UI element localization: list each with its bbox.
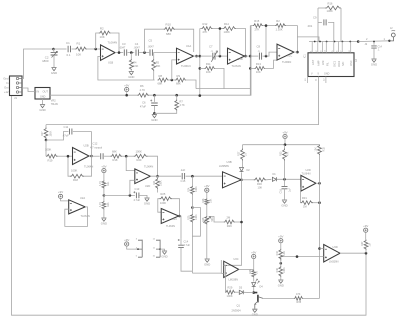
svg-text:OSC: OSC: [349, 60, 353, 66]
node fb1: [94, 48, 97, 51]
wire conn-reg: [22, 88, 35, 92]
wire Lnode: [192, 208, 200, 237]
svg-text:R17: R17: [41, 131, 44, 136]
resistor R30: [242, 179, 254, 181]
svg-text:C4: C4: [135, 42, 139, 46]
node div: [280, 262, 283, 265]
svg-text:GND: GND: [151, 118, 157, 122]
svg-text:R13: R13: [256, 62, 261, 66]
svg-text:R6: R6: [140, 84, 144, 88]
svg-text:47K: 47K: [287, 151, 290, 156]
svg-text:C16: C16: [280, 188, 283, 193]
op-amp U3B: [223, 172, 242, 188]
wire c12-r: [104, 155, 110, 157]
wire vert3: [249, 26, 251, 96]
svg-text:+9V: +9V: [204, 184, 209, 188]
wire u3c-out: [239, 268, 254, 270]
capacitor C14: [178, 239, 180, 241]
svg-text:GND: GND: [161, 254, 167, 258]
capacitor C3: [124, 49, 126, 55]
capacitor C8: [259, 53, 261, 60]
ground reg: [42, 99, 44, 104]
wire collector: [263, 297, 294, 299]
svg-text:R36: R36: [276, 267, 279, 272]
svg-text:R35: R35: [297, 301, 302, 304]
svg-text:10K: 10K: [100, 35, 105, 39]
resistor R26b: [252, 270, 256, 278]
node out1: [118, 51, 121, 54]
svg-text:10K: 10K: [210, 198, 213, 203]
svg-text:C7: C7: [209, 45, 213, 49]
wire r-node: [122, 155, 134, 157]
node vcc-v2: [199, 94, 202, 97]
resistor R32: [319, 144, 321, 146]
svg-text:GND: GND: [252, 313, 258, 317]
+9V buf: [59, 194, 63, 198]
node env-in: [125, 155, 128, 158]
resistor R17: [45, 125, 47, 128]
node v2b: [199, 67, 202, 70]
resistor R27: [242, 145, 244, 149]
op-amp U1C2: [228, 48, 245, 64]
svg-text:U3C: U3C: [234, 258, 239, 261]
resistor R24v: [157, 176, 159, 178]
node env-out: [156, 175, 159, 178]
svg-text:R20: R20: [137, 158, 142, 162]
wire c8a: [250, 55, 258, 57]
wire c7up: [219, 29, 221, 57]
wire rail-end: [186, 80, 196, 89]
svg-text:J1: J1: [14, 96, 17, 100]
resistor R9: [175, 78, 186, 82]
op-amp U3C: [224, 261, 239, 277]
svg-text:TL064N: TL064N: [108, 41, 118, 45]
svg-text:R24: R24: [153, 180, 156, 185]
svg-text:R2: R2: [276, 19, 280, 23]
wire out3: [245, 55, 251, 57]
svg-text:U1C: U1C: [287, 54, 292, 58]
svg-text:1M: 1M: [368, 243, 371, 246]
resistor R36: [279, 266, 283, 277]
wire c14-d: [181, 248, 192, 272]
capacitor C6: [153, 95, 155, 102]
resistor R29 2M: [211, 217, 224, 223]
svg-text:10K: 10K: [258, 185, 263, 189]
capacitor C12: [92, 155, 100, 157]
pot R28: [205, 216, 209, 225]
wire +in env: [130, 180, 135, 195]
svg-text:100K: 100K: [160, 201, 166, 205]
svg-text:100K: 100K: [227, 294, 233, 298]
ground Q1: [252, 309, 257, 312]
node d1: [283, 178, 286, 181]
node r7t: [175, 94, 178, 97]
svg-text:U2C: U2C: [172, 218, 177, 221]
wire c8b: [263, 52, 277, 56]
svg-text:R34: R34: [276, 250, 279, 255]
svg-text:+9V: +9V: [282, 130, 287, 134]
svg-text:R18: R18: [73, 178, 78, 182]
svg-text:R28: R28: [202, 217, 205, 222]
svg-text:R29: R29: [228, 286, 233, 290]
svg-text:130K: 130K: [195, 186, 198, 192]
svg-text:C3: C3: [122, 42, 126, 46]
wire u2dr-out: [316, 182, 320, 184]
wire u2cout: [179, 216, 181, 238]
wire ubot: [192, 260, 221, 273]
svg-text:.1uF: .1uF: [180, 168, 186, 172]
node v2a: [199, 55, 202, 58]
svg-text:Out: Out: [4, 86, 9, 90]
resistor R14: [223, 27, 237, 31]
ground R36: [278, 280, 283, 283]
svg-text:GND: GND: [51, 71, 57, 75]
svg-text:+9V: +9V: [101, 164, 106, 168]
svg-text:1800: 1800: [42, 59, 49, 63]
svg-text:10K: 10K: [315, 147, 318, 152]
capacitor C2: [51, 52, 58, 55]
resistor R20: [134, 154, 148, 158]
svg-text:R11: R11: [206, 62, 211, 66]
node out4: [296, 51, 299, 54]
+9V led: [252, 254, 256, 258]
+9V bias: [102, 169, 106, 173]
svg-text:100K: 100K: [160, 180, 163, 186]
capacitor C1: [68, 46, 70, 52]
svg-text:C12: C12: [93, 142, 98, 146]
svg-text:R25: R25: [188, 215, 191, 220]
svg-text:O/C2: O/C2: [337, 60, 341, 67]
wire 130k: [191, 195, 193, 214]
svg-text:R12: R12: [203, 22, 208, 26]
node c6: [153, 94, 156, 97]
svg-text:1.30K: 1.30K: [276, 27, 283, 31]
svg-text:+9V: +9V: [251, 250, 256, 254]
svg-text:4.7K: 4.7K: [180, 104, 185, 107]
svg-text:R27: R27: [238, 151, 241, 156]
resistor R37: [364, 240, 368, 251]
svg-text:TL064N: TL064N: [302, 172, 311, 175]
svg-text:GND: GND: [204, 262, 210, 266]
wire env-out: [150, 175, 181, 177]
svg-text:4.7K: 4.7K: [140, 88, 146, 92]
wire 9vrail: [243, 144, 320, 146]
svg-text:ANT: ANT: [311, 59, 315, 65]
svg-text:LIM: LIM: [321, 61, 325, 65]
wire vert2: [199, 29, 201, 96]
op-amp U2C: [161, 209, 179, 224]
node out3: [244, 55, 247, 58]
svg-text:R25: R25: [161, 192, 166, 196]
node u2dr: [318, 182, 321, 185]
node c45: [143, 51, 146, 54]
wire u3bout-v: [224, 173, 242, 266]
svg-text:.001: .001: [307, 24, 313, 28]
svg-text:R15: R15: [254, 19, 259, 23]
svg-text:C15: C15: [181, 179, 186, 183]
wire div: [280, 260, 282, 266]
svg-text:130K: 130K: [224, 30, 230, 34]
wire r12r14: [213, 28, 223, 30]
node 9v: [125, 94, 128, 97]
capacitor C13: [136, 193, 139, 199]
svg-text:GND: GND: [144, 201, 150, 205]
capacitor C9: [318, 21, 322, 23]
svg-text:68K: 68K: [176, 82, 181, 86]
svg-text:LM339N: LM339N: [329, 261, 339, 264]
svg-text:R26: R26: [202, 198, 205, 203]
svg-text:R32: R32: [322, 146, 325, 151]
svg-text:4.7K: 4.7K: [99, 181, 102, 186]
svg-text:100K: 100K: [136, 150, 142, 154]
svg-text:1uF: 1uF: [289, 187, 292, 192]
svg-text:R16: R16: [328, 2, 333, 6]
wire r25l2: [158, 199, 161, 213]
wire c4c5: [139, 52, 149, 54]
ground pins: [160, 249, 164, 250]
svg-text:U2D: U2D: [145, 184, 150, 188]
svg-text:TL064N: TL064N: [144, 165, 153, 169]
node v3a: [249, 55, 252, 58]
svg-text:U1A: U1A: [186, 44, 191, 48]
node busout: [357, 40, 360, 43]
resistor R10: [145, 29, 164, 52]
svg-text:5.6K: 5.6K: [133, 65, 138, 68]
power pins A: [138, 240, 142, 258]
svg-text:130K: 130K: [195, 214, 198, 220]
wire loop2: [196, 88, 250, 90]
capacitor C11: [46, 132, 69, 141]
op-amp U2Dr: [301, 175, 316, 191]
node v3b: [249, 67, 252, 70]
svg-text:O/C1: O/C1: [332, 60, 336, 67]
svg-text:LM339N: LM339N: [229, 279, 239, 282]
svg-text:TL064N: TL064N: [232, 64, 241, 68]
svg-text:AMP: AMP: [316, 60, 320, 66]
svg-text:4.7K: 4.7K: [99, 202, 102, 207]
svg-text:R18: R18: [113, 158, 118, 162]
svg-text:150K: 150K: [50, 130, 53, 136]
node lfo-in: [67, 155, 70, 158]
resistor R1: [75, 47, 87, 51]
capacitor C7: [213, 53, 215, 60]
svg-text:C13: C13: [135, 187, 140, 191]
resistor R12: [200, 28, 201, 30]
svg-text:TL064N: TL064N: [84, 165, 93, 169]
svg-text:GND: GND: [128, 75, 134, 79]
wire u3d-in1: [320, 248, 324, 250]
wire c15-u3b: [186, 175, 223, 177]
wire r15r22: [263, 25, 275, 27]
svg-text:R7: R7: [180, 100, 184, 104]
svg-text:GND: GND: [40, 95, 46, 98]
svg-text:27K: 27K: [255, 27, 260, 31]
svg-text:+9V: +9V: [278, 235, 283, 239]
diode D3: [235, 291, 239, 293]
wire out-jack: [358, 40, 389, 43]
capacitor C10: [373, 42, 375, 45]
+9V div: [279, 239, 283, 243]
wire C1b: [72, 48, 76, 50]
wire r17-r19: [45, 140, 47, 156]
wire u3c+: [221, 272, 223, 274]
node c15o: [191, 175, 194, 178]
ground R4: [129, 72, 134, 75]
svg-text:10K: 10K: [76, 53, 81, 57]
svg-text:R21: R21: [107, 181, 110, 186]
LED D4: [252, 283, 256, 287]
node u2cout: [178, 215, 181, 218]
svg-text:OUT: OUT: [43, 90, 49, 94]
wire pot-gnd: [206, 225, 208, 259]
node biasr: [129, 194, 132, 197]
svg-text:130K: 130K: [327, 9, 333, 13]
resistor R23: [102, 201, 106, 210]
regulator VR1: [35, 88, 50, 100]
resistor R19: [46, 154, 58, 158]
svg-text:4.7uF: 4.7uF: [184, 244, 191, 247]
diode D2: [240, 168, 244, 172]
node r89: [171, 79, 174, 82]
svg-text:R26: R26: [249, 269, 252, 274]
svg-text:R14: R14: [224, 22, 229, 26]
svg-text:R29: R29: [227, 224, 232, 228]
wire input: [22, 49, 54, 79]
wire out2: [194, 55, 200, 57]
resistor R25f: [160, 197, 173, 201]
svg-text:4.7 nonpol: 4.7 nonpol: [90, 145, 103, 149]
wire vref rail: [46, 77, 319, 125]
wire u3d-out: [340, 252, 366, 254]
node base: [252, 291, 255, 294]
svg-text:GND: GND: [324, 73, 330, 76]
resistor R4: [130, 53, 132, 59]
node c7o: [219, 55, 222, 58]
node out2: [195, 55, 198, 58]
svg-text:U3B: U3B: [227, 160, 232, 164]
wire r25loop: [172, 199, 180, 216]
wire out4-bus: [297, 37, 319, 42]
wire r6-r7: [149, 94, 200, 96]
svg-text:1K: 1K: [245, 153, 248, 156]
svg-text:100K: 100K: [45, 148, 51, 152]
resistor R34: [279, 249, 283, 260]
wire R1-U1: [87, 48, 101, 50]
node c6b: [153, 112, 156, 115]
svg-text:U2B: U2B: [84, 144, 89, 148]
resistor R21: [102, 180, 106, 188]
svg-text:.0047: .0047: [119, 47, 126, 50]
wire d3-b: [244, 291, 254, 293]
svg-text:0.1: 0.1: [67, 53, 71, 57]
ground jack: [371, 59, 376, 62]
wire d1-node: [277, 178, 301, 180]
resistor R5: [153, 53, 155, 59]
wire lfo-fb: [84, 132, 92, 177]
wire longv: [319, 155, 321, 298]
svg-text:S/C: S/C: [341, 62, 345, 66]
svg-text:Q1: Q1: [237, 304, 241, 308]
wire c8up: [265, 26, 267, 56]
wire r16l: [317, 8, 319, 42]
wire +in U1B: [98, 56, 155, 80]
power pins B: [156, 240, 160, 258]
svg-text:GND: GND: [278, 283, 284, 287]
svg-text:R31: R31: [302, 196, 307, 200]
svg-text:GND: GND: [281, 203, 287, 207]
+9V pwr: [125, 242, 129, 246]
svg-text:C6: C6: [142, 101, 146, 105]
svg-text:TL064N: TL064N: [81, 214, 90, 218]
wire r26-led: [253, 277, 255, 281]
wire out4: [294, 51, 297, 53]
svg-text:+9V: +9V: [363, 224, 368, 228]
resistor R33: [284, 145, 286, 149]
wire out U1B: [115, 52, 123, 54]
svg-text:R2: R2: [100, 27, 104, 31]
svg-text:68K: 68K: [112, 150, 117, 154]
svg-text:68K: 68K: [166, 32, 171, 36]
ground C2: [51, 68, 56, 71]
resistor R29b: [225, 290, 235, 294]
IC bottom pins: [308, 77, 326, 84]
svg-text:47K: 47K: [296, 293, 301, 296]
resistor R13: [250, 67, 254, 69]
svg-text:.47uF: .47uF: [62, 134, 69, 138]
resistor R26: [205, 198, 209, 205]
svg-text:TL061N: TL061N: [181, 64, 191, 68]
svg-text:Gnd: Gnd: [3, 77, 9, 81]
svg-text:LM358N: LM358N: [219, 164, 229, 168]
ground C13: [144, 198, 149, 201]
wire r8r9: [169, 79, 175, 81]
svg-text:U3D: U3D: [333, 245, 338, 249]
resistor R22: [275, 24, 286, 28]
node u3bout: [240, 179, 243, 182]
capacitor C4: [136, 49, 138, 55]
+9V supply: [125, 87, 129, 91]
wire c7b: [216, 55, 228, 57]
node 130k: [191, 206, 194, 209]
svg-text:50K: 50K: [211, 217, 214, 222]
wire c3c4: [128, 52, 135, 54]
node in: [52, 48, 55, 51]
wire env-in-d: [126, 156, 135, 170]
node u3dout: [365, 252, 368, 255]
svg-text:C1: C1: [66, 41, 70, 45]
node lv1: [318, 247, 321, 250]
op-amp U1B: [101, 45, 116, 61]
ground R23: [101, 218, 106, 221]
node r1214: [219, 27, 222, 30]
wire vcc-mid: [200, 26, 251, 96]
svg-text:R24: R24: [188, 187, 191, 192]
op-amp U1A: [177, 48, 194, 64]
op-amp U2B: [73, 148, 90, 165]
+9V pot: [205, 188, 209, 192]
svg-text:R1: R1: [77, 42, 81, 46]
ground C16: [282, 200, 287, 203]
svg-text:+9V: +9V: [124, 83, 129, 87]
svg-text:GND: GND: [39, 108, 45, 112]
op-amp U2A: [69, 200, 86, 214]
svg-text:IC1: IC1: [304, 54, 307, 58]
node r1522: [265, 24, 268, 27]
capacitor C16: [284, 179, 286, 186]
node bias: [103, 194, 106, 197]
+9V comp: [364, 228, 368, 232]
wire c5-U1A: [153, 52, 176, 54]
